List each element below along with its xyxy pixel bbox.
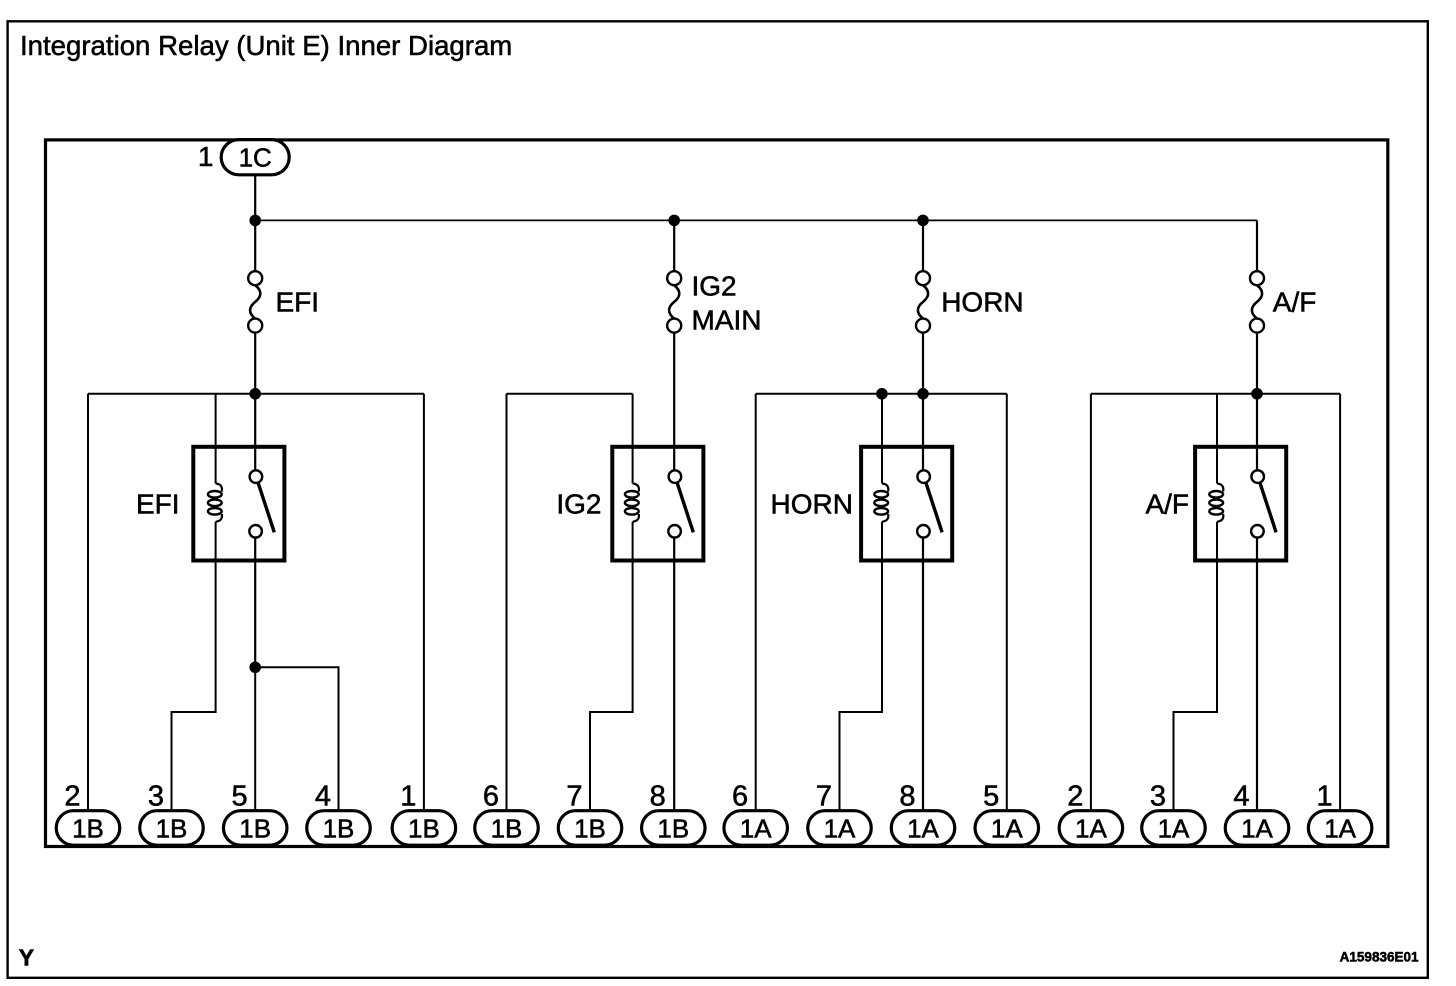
- connector 1A pin 7: [808, 811, 872, 846]
- wire IG2 coil to connector: [590, 522, 633, 811]
- svg-text:1C: 1C: [239, 143, 272, 173]
- svg-text:1A: 1A: [1324, 814, 1356, 844]
- wire rail to 5-1A: [1006, 394, 1008, 811]
- svg-text:1A: 1A: [907, 814, 939, 844]
- wire rail to HORN switch: [922, 394, 924, 471]
- wire rail to IG2 coil: [632, 394, 634, 484]
- svg-text:1: 1: [400, 780, 416, 812]
- wire rail to 2-1B: [87, 394, 89, 811]
- wire IG2 switch to connector: [673, 538, 675, 811]
- wire rail to EFI switch: [254, 394, 256, 471]
- svg-text:IG2: IG2: [692, 271, 737, 302]
- svg-text:5: 5: [983, 780, 999, 812]
- wire HORN coil to connector: [840, 522, 883, 811]
- fuse EFI value label: [276, 287, 320, 318]
- svg-text:4: 4: [315, 780, 331, 812]
- wire fuse IG2 MAIN to relay switch: [673, 333, 675, 471]
- svg-text:1: 1: [198, 141, 214, 172]
- svg-text:A/F: A/F: [1145, 488, 1189, 519]
- svg-text:1B: 1B: [239, 814, 271, 844]
- wire IG2 rail: [507, 393, 633, 395]
- relay A/F coil: [1209, 483, 1223, 521]
- svg-text:1B: 1B: [408, 814, 440, 844]
- wire rail to EFI coil: [215, 394, 217, 484]
- svg-text:A159836E01: A159836E01: [1340, 949, 1419, 964]
- node EFI output junction: [249, 662, 261, 674]
- svg-text:IG2: IG2: [556, 488, 601, 519]
- svg-text:HORN: HORN: [941, 287, 1023, 318]
- svg-text:A/F: A/F: [1273, 287, 1317, 318]
- svg-text:7: 7: [816, 780, 832, 812]
- connector 1B pin 3: [140, 811, 204, 846]
- connector 1A pin 3: [1142, 811, 1206, 846]
- wire rail to 6-1A: [755, 394, 757, 811]
- svg-text:3: 3: [148, 780, 164, 812]
- connector 1B pin 2: [56, 811, 120, 846]
- connector 1C: [221, 140, 289, 175]
- wire bus to fuse EFI: [254, 220, 256, 271]
- wire fuse HORN to rail: [922, 333, 924, 394]
- svg-text:Y: Y: [19, 945, 34, 971]
- connector 1A pin 5: [975, 811, 1039, 846]
- connector 1B pin 5: [223, 811, 287, 846]
- svg-text:3: 3: [1150, 780, 1166, 812]
- wire EFI rail: [88, 393, 424, 395]
- relay A/F switch: [1251, 470, 1276, 537]
- wire EFI coil to connector: [172, 522, 216, 811]
- svg-text:MAIN: MAIN: [692, 305, 762, 336]
- wire HORN rail: [756, 393, 1007, 395]
- relay A/F box: [1195, 447, 1286, 561]
- node bus junction EFI: [249, 215, 261, 227]
- connector 1A pin 2: [1059, 811, 1123, 846]
- fuse HORN: [916, 271, 930, 332]
- svg-text:4: 4: [1233, 780, 1249, 812]
- wire rail to 6-1B: [506, 394, 508, 811]
- svg-text:5: 5: [232, 780, 248, 812]
- svg-text:2: 2: [1067, 780, 1083, 812]
- node HORN switch rail junction: [917, 388, 929, 400]
- svg-text:1B: 1B: [72, 814, 104, 844]
- relay IG2 box: [612, 447, 703, 561]
- wire rail to A/F coil: [1216, 394, 1218, 484]
- svg-text:7: 7: [566, 780, 582, 812]
- svg-text:1A: 1A: [824, 814, 856, 844]
- wire bus corner down to fuse A/F: [1256, 220, 1258, 271]
- wire rail to HORN coil: [881, 394, 883, 484]
- connector 1B pin 1: [392, 811, 456, 846]
- svg-text:8: 8: [899, 780, 915, 812]
- connector 1A pin 1: [1308, 811, 1372, 846]
- wire rail to A/F switch: [1256, 394, 1258, 471]
- connector 1B pin 6: [475, 811, 539, 846]
- wire fuse EFI to rail: [254, 333, 256, 394]
- svg-text:2: 2: [64, 780, 80, 812]
- node HORN coil rail junction: [876, 388, 888, 400]
- svg-text:1B: 1B: [491, 814, 523, 844]
- node bus junction HORN: [917, 215, 929, 227]
- node EFI rail junction: [249, 388, 261, 400]
- svg-text:1A: 1A: [1075, 814, 1107, 844]
- wire connector 1C to bus: [254, 175, 256, 221]
- node bus junction IG2 MAIN: [668, 215, 680, 227]
- connector 1A pin 4: [1225, 811, 1289, 846]
- wire power bus: [255, 219, 1257, 221]
- svg-text:EFI: EFI: [136, 488, 180, 519]
- svg-text:6: 6: [483, 780, 499, 812]
- wire bus to fuse IG2 MAIN: [673, 220, 675, 271]
- connector 1B pin 8: [642, 811, 706, 846]
- integration relay unit E box: [46, 140, 1388, 847]
- relay EFI coil: [208, 483, 222, 521]
- svg-text:1B: 1B: [156, 814, 188, 844]
- fuse HORN value label: [941, 287, 1023, 318]
- svg-text:1A: 1A: [1158, 814, 1190, 844]
- wire fuse A/F to rail: [1256, 333, 1258, 394]
- relay EFI box: [193, 447, 284, 561]
- svg-text:1: 1: [1316, 780, 1332, 812]
- svg-text:6: 6: [732, 780, 748, 812]
- wire rail to 1-1B: [423, 394, 425, 811]
- wire HORN switch to connector: [922, 538, 924, 811]
- fuse EFI: [248, 271, 262, 332]
- connector 1A pin 6: [724, 811, 788, 846]
- fuse A/F: [1250, 271, 1264, 332]
- wire EFI junction to connector 5-1B: [254, 667, 256, 810]
- relay IG2 coil: [625, 483, 639, 521]
- fuse IG2 MAIN: [667, 271, 681, 332]
- svg-text:1B: 1B: [323, 814, 355, 844]
- fuse A/F value label: [1273, 287, 1317, 318]
- connector 1B pin 7: [558, 811, 622, 846]
- relay HORN switch: [917, 470, 942, 537]
- wire A/F switch to connector: [1256, 538, 1258, 811]
- wire EFI switch to junction: [254, 538, 256, 668]
- relay EFI switch: [249, 470, 274, 537]
- svg-text:1B: 1B: [657, 814, 689, 844]
- svg-text:EFI: EFI: [276, 287, 320, 318]
- connector 1A pin 8: [891, 811, 955, 846]
- svg-text:8: 8: [650, 780, 666, 812]
- wire rail to 2-1A: [1090, 394, 1092, 811]
- svg-text:1A: 1A: [740, 814, 772, 844]
- svg-text:1B: 1B: [574, 814, 606, 844]
- wire EFI junction to connector 4-1B: [255, 667, 338, 810]
- wire A/F rail: [1091, 393, 1340, 395]
- relay HORN box: [861, 447, 952, 561]
- fuse IG2 MAIN value label: [692, 271, 762, 336]
- svg-text:1A: 1A: [1241, 814, 1273, 844]
- wire A/F coil to connector: [1174, 522, 1218, 811]
- node A/F rail junction: [1251, 388, 1263, 400]
- svg-text:HORN: HORN: [771, 488, 853, 519]
- wire bus to fuse HORN: [922, 220, 924, 271]
- svg-text:1A: 1A: [991, 814, 1023, 844]
- relay HORN coil: [874, 483, 888, 521]
- svg-text:Integration Relay (Unit E) Inn: Integration Relay (Unit E) Inner Diagram: [20, 30, 512, 61]
- wire rail to 1-1A: [1339, 394, 1341, 811]
- connector 1B pin 4: [307, 811, 371, 846]
- relay IG2 switch: [668, 470, 693, 537]
